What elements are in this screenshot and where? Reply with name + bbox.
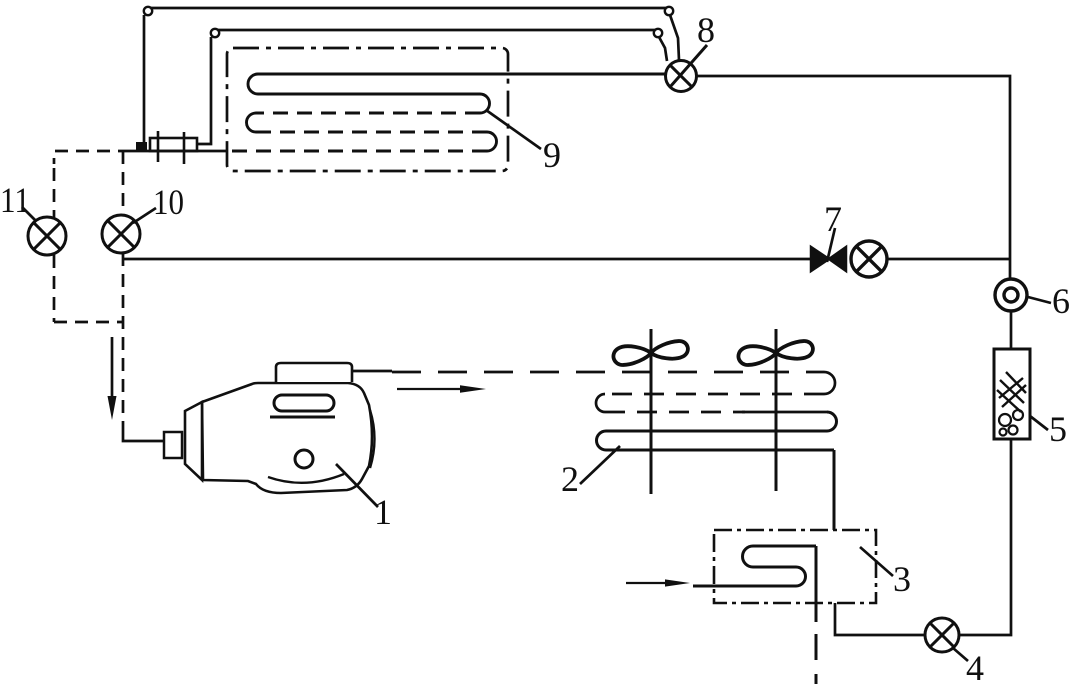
wire solid liquid line under fitting bbox=[131, 150, 227, 153]
evaporator coil 2 row4 solid bbox=[606, 430, 827, 433]
condenser coil 9 left U-bend row3-row4 bbox=[247, 113, 257, 132]
wire dashed vertical x=123 through valve 10 bbox=[122, 151, 125, 215]
fan 2 propeller bbox=[737, 338, 814, 367]
valve 4 circle-X bbox=[925, 618, 959, 652]
expansion valve 10 circle-X bbox=[102, 215, 140, 253]
heat exchanger 3 coil top row bbox=[753, 545, 816, 548]
flow arrow down to compressor bbox=[111, 337, 114, 398]
wire from valve 4 to heat exchanger 3 bbox=[835, 603, 925, 635]
evaporator coil 2 right U-bend row1-row2 bbox=[824, 372, 835, 394]
valve circle-X next to 7 bbox=[851, 241, 887, 277]
svg-text:8: 8 bbox=[697, 10, 715, 50]
compressor 1 small circle port bbox=[295, 450, 313, 468]
flow arrow into heat exchanger 3 bbox=[626, 582, 670, 584]
node solid square junction bbox=[136, 142, 147, 152]
node corner circle right line2 bbox=[654, 29, 662, 37]
condenser box 9 dash-dot border bbox=[227, 48, 508, 171]
heat exchanger 3 coil right U-bend up bbox=[796, 567, 806, 586]
node corner circle top-left line1 bbox=[144, 7, 152, 15]
svg-text:7: 7 bbox=[824, 199, 842, 239]
node corner circle top-right line1 bbox=[665, 7, 673, 15]
svg-text:5: 5 bbox=[1049, 409, 1067, 449]
condenser coil 9 row5 dashed bbox=[227, 150, 487, 153]
wire top line 2 horizontal bbox=[218, 29, 655, 32]
fan 1 propeller bbox=[612, 338, 689, 367]
filter-drier 5 desiccant beads bbox=[999, 410, 1023, 436]
wire dashed bottom horizontal 11-10 bbox=[54, 321, 123, 324]
wire slanted from line2 right corner to valve 8 bbox=[659, 37, 667, 61]
leader line for label 3 bbox=[860, 547, 893, 576]
leader line for label 11 bbox=[22, 207, 36, 221]
svg-text:3: 3 bbox=[893, 559, 911, 599]
svg-text:9: 9 bbox=[543, 135, 561, 175]
compressor 1 body bbox=[202, 383, 372, 493]
wire dashed continuation below box bbox=[815, 634, 818, 684]
compressor 1 top discharge cap bbox=[276, 363, 352, 382]
heat exchanger 3 coil left U-bend up bbox=[743, 546, 754, 567]
leader line for label 1 bbox=[336, 464, 378, 507]
wire vertical from line1 left corner down to square node bbox=[143, 15, 146, 143]
wire dashed discharge line to evaporator (row1) bbox=[392, 371, 824, 374]
condenser coil 9 row1 solid bbox=[258, 73, 666, 76]
svg-text:11: 11 bbox=[0, 180, 30, 220]
expansion valve 11 circle-X bbox=[28, 217, 66, 255]
filter-drier 5 body bbox=[994, 349, 1030, 439]
svg-text:6: 6 bbox=[1052, 281, 1069, 321]
svg-text:4: 4 bbox=[966, 648, 984, 684]
compressor 1 oval slot bbox=[274, 395, 334, 411]
leader line for label 4 bbox=[953, 648, 968, 661]
condenser coil 9 row4 dashed bbox=[256, 131, 487, 134]
svg-text:1: 1 bbox=[374, 492, 392, 532]
wire top line 1 horizontal bbox=[151, 7, 666, 10]
evaporator coil 2 left U-bend row2-row3 bbox=[596, 394, 605, 412]
leader line for label 5 bbox=[1030, 416, 1048, 430]
heat exchanger 3 coil middle row bbox=[753, 566, 796, 569]
condenser coil 9 right U-bend row4-row5 bbox=[487, 132, 497, 151]
wire from evaporator outlet down to heat exchanger 3 bbox=[833, 450, 836, 530]
flow arrow to evaporator bbox=[397, 388, 466, 390]
compressor 1 suction fitting bbox=[164, 432, 182, 458]
filter-drier 5 desiccant hatch bbox=[997, 372, 1026, 412]
wire vertical from line2 left corner down to fitting bbox=[198, 37, 211, 144]
evaporator coil 2 right U-bend row3-row4 bbox=[827, 412, 837, 431]
wire coil outlet down through box bottom bbox=[815, 546, 818, 622]
heat exchanger 3 dash-dot box bbox=[714, 530, 876, 603]
evaporator coil 2 left U-bend row4-row5 bbox=[597, 431, 607, 450]
evaporator coil 2 row2 dashed bbox=[605, 393, 824, 396]
valve 7 bowtie bbox=[811, 247, 846, 271]
svg-text:2: 2 bbox=[561, 459, 579, 499]
condenser coil 9 right U-bend row2-row3 bbox=[480, 94, 490, 113]
wire slanted from line1 right corner down to valve 8 bbox=[670, 15, 679, 60]
leader line for label 7 bbox=[827, 228, 835, 262]
condenser coil 9 row2 solid bbox=[258, 93, 480, 96]
fan 2 shaft bbox=[775, 329, 778, 491]
evaporator coil 2 row3 solid part bbox=[742, 411, 827, 414]
wire from valve 7 group to right main line bbox=[887, 258, 1010, 261]
leader line for label 6 bbox=[1028, 297, 1051, 303]
svg-text:10: 10 bbox=[153, 182, 184, 222]
wire dashed vertical x=54 through valve 11 bbox=[54, 151, 123, 434]
compressor 1 line under slot bbox=[270, 416, 335, 419]
wire dashed liquid line to left header bbox=[54, 151, 131, 164]
wire right main line between 6 and 5 bbox=[1010, 311, 1013, 349]
evaporator coil 2 row5 solid bbox=[606, 449, 834, 452]
heat exchanger 3 coil entry row bbox=[693, 585, 796, 588]
compressor 1 front bell bbox=[185, 402, 202, 480]
wire from valve 8 to top-right corner bbox=[696, 76, 1010, 279]
leader line for label 9 bbox=[486, 110, 541, 149]
sight glass 6 double circle bbox=[995, 279, 1027, 311]
node corner circle left line2 bbox=[211, 29, 219, 37]
condenser coil 9 row3 dashed bbox=[256, 112, 480, 115]
valve 8 circle-X bbox=[666, 45, 708, 92]
leader line for label 2 bbox=[580, 446, 620, 484]
wire right main line from 5 down to valve 4 level bbox=[959, 439, 1011, 635]
compressor 1 motor dome arc bbox=[370, 410, 375, 468]
wire horizontal hot-gas line y=259 bbox=[123, 258, 810, 261]
evaporator coil 2 row3 dashed part bbox=[605, 411, 745, 414]
wire suction connection into compressor bbox=[123, 434, 164, 441]
fan 1 shaft bbox=[650, 329, 653, 494]
compressor 1 bottom smile line bbox=[268, 474, 344, 483]
leader line for label 10 bbox=[133, 208, 156, 223]
fitting (shut-off valve body) on liquid line bbox=[150, 131, 197, 164]
condenser coil 9 left U-bend row1-row2 bbox=[248, 74, 258, 94]
wire discharge stub from compressor cap bbox=[352, 370, 392, 373]
